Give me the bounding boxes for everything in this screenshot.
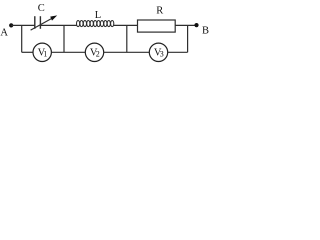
svg-text:A: A bbox=[0, 28, 8, 39]
wire resistor to B bbox=[175, 24, 196, 26]
wire riser between C and L bbox=[63, 25, 65, 52]
svg-text:L: L bbox=[95, 10, 101, 21]
capacitor C1 variable arrow bbox=[31, 15, 58, 30]
wire V1 to V2 bbox=[51, 51, 85, 53]
wire bottom rail to V1 bbox=[22, 51, 33, 53]
svg-text:B: B bbox=[202, 26, 209, 37]
wire riser left (A side down to bottom rail) bbox=[21, 25, 23, 52]
voltmeter V1 circle bbox=[33, 43, 51, 61]
voltmeter V2 circle bbox=[85, 43, 103, 61]
wire V3 to right riser bbox=[168, 51, 188, 53]
wire A to capacitor bbox=[11, 24, 35, 26]
wire inductor to resistor bbox=[114, 24, 138, 26]
resistor R1 body bbox=[138, 20, 176, 32]
svg-text:V3: V3 bbox=[154, 47, 164, 58]
wire riser right (B side down to bottom rail) bbox=[187, 25, 189, 52]
svg-text:V2: V2 bbox=[90, 47, 100, 58]
wire riser between L and R bbox=[126, 25, 128, 52]
svg-text:V1: V1 bbox=[38, 47, 48, 58]
voltmeter V3 circle bbox=[149, 43, 167, 61]
capacitor C1 plate right bbox=[39, 16, 41, 29]
svg-text:C: C bbox=[38, 3, 45, 14]
node A terminal dot bbox=[9, 23, 13, 27]
node B terminal dot bbox=[194, 23, 198, 27]
capacitor C1 plate left bbox=[34, 16, 36, 29]
wire V2 to V3 bbox=[104, 51, 150, 53]
svg-text:R: R bbox=[156, 6, 163, 17]
inductor L1 coil bbox=[77, 21, 114, 27]
wire capacitor to inductor bbox=[40, 24, 76, 26]
